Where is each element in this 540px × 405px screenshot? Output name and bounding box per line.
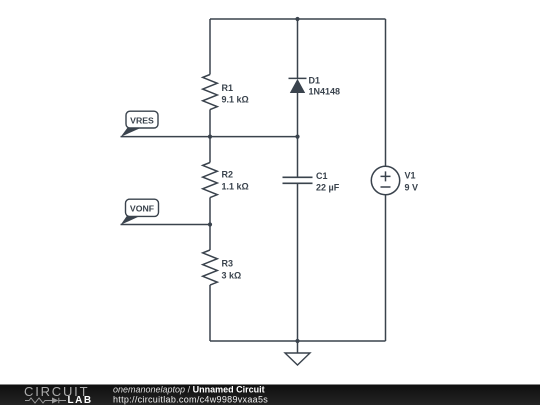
wire V1 to bottom — [385, 195, 387, 341]
diode D1 — [289, 75, 341, 96]
wire top horizontal — [210, 18, 386, 20]
junction dot top — [295, 17, 299, 21]
wire C1 to ground node — [297, 183, 299, 353]
wire bottom horizontal — [210, 340, 386, 342]
svg-text:D1: D1 — [309, 75, 321, 85]
svg-text:3 kΩ: 3 kΩ — [222, 271, 242, 281]
junction dot VONF — [208, 222, 212, 226]
svg-text:R2: R2 — [222, 170, 234, 180]
svg-text:VONF: VONF — [130, 203, 154, 213]
junction dot VRES-left — [208, 135, 212, 139]
junction dot VRES-middle — [295, 135, 299, 139]
wire R3 to bottom — [209, 285, 211, 341]
voltage source V1 — [371, 166, 399, 194]
node VRES flag — [121, 111, 158, 137]
wire middle branch top (node to D1) — [297, 19, 299, 78]
svg-text:9 V: 9 V — [405, 183, 419, 193]
svg-text:1.1 kΩ: 1.1 kΩ — [222, 182, 249, 192]
svg-text:R3: R3 — [222, 259, 234, 269]
resistor R2 — [203, 163, 218, 198]
svg-text:LAB: LAB — [68, 395, 93, 405]
wire R1 to VRES node — [209, 110, 211, 163]
svg-text:VRES: VRES — [130, 115, 154, 125]
svg-text:C1: C1 — [316, 171, 328, 181]
svg-text:R1: R1 — [222, 83, 234, 93]
wire R2 to R3 — [209, 198, 211, 251]
wire D1 to C1 — [297, 93, 299, 177]
junction dot bottom — [295, 339, 299, 343]
wire VRES horizontal — [121, 136, 298, 138]
svg-text:22 µF: 22 µF — [316, 183, 340, 193]
wire right branch top (node to V1) — [385, 19, 387, 166]
resistor R3 — [203, 250, 218, 285]
logo waveform — [25, 398, 66, 403]
ground — [285, 353, 310, 365]
svg-text:1N4148: 1N4148 — [309, 87, 341, 97]
svg-text:V1: V1 — [405, 171, 416, 181]
svg-text:9.1 kΩ: 9.1 kΩ — [222, 95, 249, 105]
wire left branch top (node to R1) — [209, 19, 211, 75]
node VONF flag — [121, 199, 159, 225]
svg-text:onemanonelaptop / Unnamed Circ: onemanonelaptop / Unnamed Circuit — [113, 384, 265, 394]
svg-text:http://circuitlab.com/c4w9989v: http://circuitlab.com/c4w9989vxaa5s — [113, 395, 268, 405]
resistor R1 — [203, 75, 218, 110]
wire VONF horizontal — [121, 224, 211, 226]
capacitor C1 — [283, 171, 340, 193]
